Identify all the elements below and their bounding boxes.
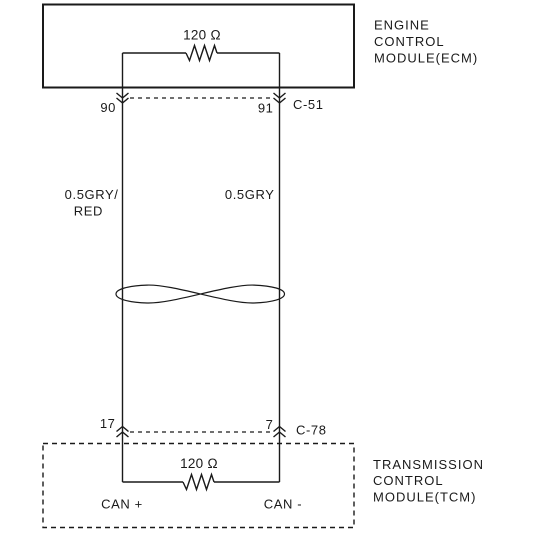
svg-text:90: 90 [100, 100, 116, 115]
wire CAN+ left vertical [122, 53, 124, 482]
svg-text:17: 17 [100, 416, 116, 431]
TCM module dashed box [43, 444, 354, 528]
svg-text:C-51: C-51 [293, 97, 324, 112]
svg-text:91: 91 [258, 101, 274, 116]
resistor R-TCM 120 ohm wire left segment [123, 481, 184, 483]
wire CAN- right vertical [279, 53, 281, 482]
connector C-51 pin 91 chevron [274, 93, 286, 98]
svg-text:ENGINECONTROLMODULE(ECM): ENGINECONTROLMODULE(ECM) [374, 18, 478, 66]
svg-text:CAN -: CAN - [264, 497, 302, 512]
svg-text:120 Ω: 120 Ω [180, 456, 218, 471]
connector C-78 pin 17 chevron [117, 427, 129, 432]
svg-text:TRANSMISSIONCONTROLMODULE(TCM): TRANSMISSIONCONTROLMODULE(TCM) [373, 457, 484, 505]
svg-text:C-78: C-78 [296, 423, 327, 438]
svg-text:CAN +: CAN + [101, 497, 143, 512]
resistor R-ECM 120 ohm wire right segment [217, 52, 280, 54]
connector C-51 pin 90 chevron [117, 93, 129, 98]
svg-text:120 Ω: 120 Ω [183, 28, 221, 43]
twisted pair symbol (figure-eight) [116, 285, 285, 303]
resistor R-TCM zigzag [183, 475, 214, 490]
svg-text:0.5GRY/RED: 0.5GRY/RED [65, 187, 119, 218]
resistor R-ECM zigzag [186, 46, 217, 61]
resistor R-ECM 120 ohm wire left segment [123, 52, 187, 54]
svg-text:7: 7 [266, 417, 274, 432]
ECM module box [43, 5, 354, 88]
connector C-78 pin 7 chevron [274, 427, 286, 432]
connector C-51 dashed line [130, 97, 272, 99]
resistor R-TCM 120 ohm wire right segment [214, 481, 280, 483]
connector C-78 dashed line [130, 431, 272, 433]
svg-text:0.5GRY: 0.5GRY [225, 187, 275, 202]
